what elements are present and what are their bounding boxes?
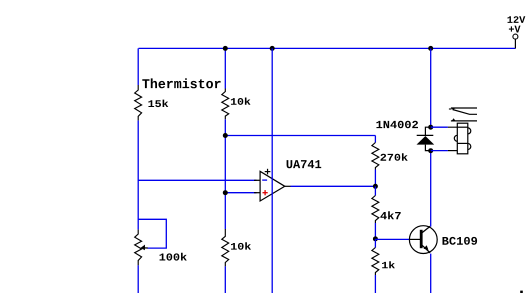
resistor R4 270k (zigzag) xyxy=(372,143,379,170)
wire top supply rail xyxy=(139,47,516,49)
transistor Q1 BC109 xyxy=(409,226,437,254)
label 15k xyxy=(148,100,168,108)
junction diode top node xyxy=(428,125,433,130)
wire op-amp inverting input (from thermistor divider) xyxy=(138,179,256,181)
potentiometer wiper loop wire xyxy=(138,219,166,248)
label 270k xyxy=(380,153,407,161)
label 4k7 xyxy=(380,211,400,219)
wire diode bottom node to relay coil xyxy=(431,150,448,152)
resistor R2 10k upper (zigzag) xyxy=(222,89,229,120)
wire left branch vertical (node A) xyxy=(137,48,139,293)
stray dot bottom right xyxy=(520,291,523,293)
op-amp inverting minus mark (blue) xyxy=(262,179,267,181)
wire crossing branch vertical (node C) xyxy=(271,48,273,293)
label 10k lower xyxy=(231,242,251,249)
wire 4k7 to base node xyxy=(374,223,376,239)
junction divider mid node xyxy=(223,133,228,138)
label +V xyxy=(509,26,521,33)
relay contact upper fixed xyxy=(449,108,477,111)
label UA741 xyxy=(287,160,322,168)
wire diode top node to relay coil xyxy=(431,126,448,128)
junction diode bottom node xyxy=(428,148,433,153)
wire emitter down to bottom edge xyxy=(430,254,432,293)
relay contact moving arm xyxy=(453,110,478,115)
label 12V xyxy=(508,16,526,23)
op-amp V+ plus mark (black) xyxy=(265,169,271,175)
junction node B top rail xyxy=(223,46,228,51)
power terminal +V 12V xyxy=(513,34,518,48)
relay RL1 coil xyxy=(448,123,471,154)
resistor R7 1k (zigzag) xyxy=(372,248,379,276)
potentiometer R6 100k (zigzag) xyxy=(135,230,142,266)
label 100k xyxy=(159,253,186,261)
op-amp U1 UA741 xyxy=(254,171,291,201)
wire 1k to bottom edge xyxy=(374,275,376,293)
label Thermistor xyxy=(142,78,220,88)
potentiometer wiper arrow xyxy=(141,245,148,251)
wire 270k branch vertical xyxy=(374,136,376,187)
junction op-amp output node xyxy=(373,184,378,189)
label 1k xyxy=(382,261,395,268)
wire divider branch vertical (node B) xyxy=(224,48,226,293)
junction non-inverting input node xyxy=(223,190,228,195)
wire relay branch from top rail xyxy=(430,48,432,127)
label BC109 xyxy=(442,237,477,245)
wire op-amp non-inverting input xyxy=(225,192,256,194)
resistor R3 10k lower (zigzag) xyxy=(222,229,229,266)
wire feedback top (divider mid to 270k top) xyxy=(225,135,375,137)
label 10k upper xyxy=(231,97,251,104)
op-amp non-inverting plus mark (red) xyxy=(263,190,268,195)
junction base node xyxy=(373,236,378,241)
wire base node to transistor base xyxy=(375,238,409,240)
diode D1 1N4002 xyxy=(417,127,435,150)
resistor R5 4k7 (zigzag) xyxy=(372,196,379,224)
relay contact lower fixed xyxy=(451,118,477,121)
wire collector up to diode bottom node xyxy=(430,151,432,227)
wire base node to 1k xyxy=(374,239,376,248)
wire output to 4k7 xyxy=(374,186,376,195)
thermistor R1 15k (zigzag) xyxy=(135,85,142,120)
label 1N4002 xyxy=(376,121,418,128)
junction relay branch top rail xyxy=(428,46,433,51)
wire op-amp output xyxy=(291,185,376,187)
junction node C top rail xyxy=(270,46,275,51)
